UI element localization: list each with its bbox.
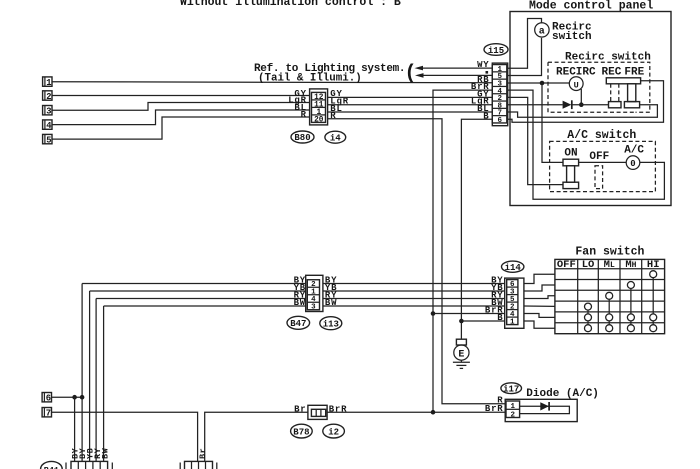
wire i14 pin2 to fan table row4 bbox=[524, 305, 555, 307]
diode connector cells 1 2 bbox=[506, 401, 520, 418]
oval i17 bbox=[501, 383, 522, 395]
wire i15 pin6 B down to ground bbox=[461, 119, 492, 339]
wire i15 pin3 to recirc motor bbox=[508, 82, 570, 84]
A/C ON contact bottom box bbox=[563, 182, 579, 188]
diode i17 outer box bbox=[505, 399, 577, 421]
wire A/C lamp to i15 pin4 BrR bbox=[508, 90, 665, 199]
ground E symbol bbox=[453, 339, 470, 368]
fan contact circles row B bbox=[585, 325, 657, 332]
svg-text:i13: i13 bbox=[323, 320, 339, 330]
svg-text:B78: B78 bbox=[293, 427, 309, 437]
wire box7 Br to bottom connector bbox=[52, 412, 198, 461]
wire i14 pin1 to fan table row6 bbox=[524, 321, 555, 328]
svg-text:B47: B47 bbox=[290, 319, 306, 329]
svg-text:1: 1 bbox=[510, 318, 515, 326]
svg-text:Br: Br bbox=[198, 448, 208, 459]
i15 pin numbers 1 5 3 4 2 8 7 6 bbox=[498, 66, 503, 125]
B80 right wire labels bbox=[330, 89, 349, 121]
svg-text:OFF: OFF bbox=[589, 151, 609, 163]
left terminal box 5 bbox=[43, 134, 52, 145]
node junction on RB row bbox=[540, 81, 545, 86]
svg-text:1: 1 bbox=[46, 78, 51, 88]
OFF position dashed contact bbox=[595, 166, 603, 189]
fan contact circles row RY (ML) bbox=[606, 292, 613, 299]
svg-text:Without illumination control :: Without illumination control : B bbox=[180, 0, 401, 9]
wire YB row turns down bbox=[89, 291, 91, 462]
wire ON bottom contact to i15 pin2 GY bbox=[508, 97, 563, 184]
B47 pin numbers 2 1 4 3 bbox=[311, 281, 316, 312]
connector B78/i2 body bbox=[308, 405, 327, 419]
svg-text:2: 2 bbox=[46, 92, 51, 102]
svg-text:7: 7 bbox=[46, 409, 51, 419]
left terminal box 3 bbox=[43, 106, 52, 117]
REC contact bottom box bbox=[609, 102, 622, 108]
svg-text:i4: i4 bbox=[330, 133, 341, 143]
oval i14 bbox=[502, 261, 524, 273]
wire Br from bottom connector to B78 bbox=[205, 412, 308, 461]
connector B80/i4 body bbox=[310, 89, 328, 125]
svg-text:6: 6 bbox=[498, 117, 503, 125]
svg-text:ML: ML bbox=[604, 259, 615, 271]
wire i14 pin5 to fan table row3 bbox=[524, 296, 555, 299]
svg-text:i2: i2 bbox=[328, 427, 339, 437]
svg-text:BrR: BrR bbox=[485, 404, 504, 414]
oval B41 (cut) bbox=[41, 461, 63, 469]
svg-text:Br: Br bbox=[294, 404, 306, 414]
arrow to lighting system (i15 pin5) bbox=[415, 73, 492, 78]
svg-text:3: 3 bbox=[311, 304, 316, 312]
wire ON contact to A/C lamp bbox=[579, 161, 627, 163]
wire i14 pin6 to fan table row1 bbox=[524, 274, 555, 283]
node junction BrR/B78 row bbox=[431, 410, 436, 415]
wire RY row turns down bbox=[95, 299, 97, 462]
connector i14 body bbox=[505, 278, 524, 328]
bottom left connector (cut) bbox=[66, 461, 112, 469]
arrow to lighting system (WY, i15 pin1) bbox=[415, 66, 493, 71]
FRE contact bottom box bbox=[624, 102, 639, 108]
node junction BrR row bbox=[431, 311, 436, 316]
Recirc switch dashed box bbox=[548, 62, 650, 112]
Mode control panel box bbox=[510, 12, 671, 206]
diode D1 (recirc) bbox=[563, 100, 572, 109]
REC contact dashed legs bbox=[610, 84, 612, 102]
FRE contact leg (engaged) bbox=[628, 84, 636, 102]
node junction box6 wire b bbox=[80, 395, 85, 400]
svg-text:i17: i17 bbox=[503, 385, 519, 395]
wire BW row turns down bbox=[103, 306, 105, 462]
fan switch contact column HI bbox=[652, 274, 654, 328]
fan switch contact column ML bbox=[608, 296, 610, 328]
svg-text:BW: BW bbox=[100, 447, 110, 459]
left terminal box 4 bbox=[43, 120, 53, 131]
bottom middle connector (cut) bbox=[180, 461, 217, 469]
wire box6 branch down to bottom connector bbox=[74, 397, 76, 461]
A/C ON contact leg bbox=[567, 166, 575, 182]
svg-text:A/C switch: A/C switch bbox=[567, 129, 636, 142]
i14 pin numbers 6 3 5 2 4 1 bbox=[510, 281, 515, 326]
svg-text:E: E bbox=[458, 349, 464, 360]
wire BrR row to i14 pin4 bbox=[433, 313, 505, 315]
fan contact circles row BrR bbox=[585, 314, 657, 321]
wire B80 R to diode i17 pin1 (down at x=442) bbox=[328, 119, 506, 404]
svg-text:R: R bbox=[301, 110, 307, 120]
wire B80 BL to i15 pin7 bbox=[328, 111, 493, 113]
motor lead down to diode row bbox=[580, 89, 582, 105]
wire box4 to B80 pin1 (BL) bbox=[52, 110, 310, 125]
connector B47/i13 body bbox=[306, 275, 323, 311]
svg-text:switch: switch bbox=[552, 31, 592, 43]
svg-text:0: 0 bbox=[630, 159, 635, 169]
asterisk mark for pin 5 bbox=[486, 71, 489, 74]
svg-text:OFF: OFF bbox=[557, 259, 576, 271]
i15 wire color labels WY * RB BrR GY LgR BL B bbox=[471, 60, 490, 121]
svg-text:A/C: A/C bbox=[624, 144, 644, 156]
svg-text:BW: BW bbox=[294, 298, 306, 308]
svg-text:(Tail & Illumi.): (Tail & Illumi.) bbox=[258, 73, 362, 85]
wire i14 pin4 to fan table row5 bbox=[524, 314, 555, 318]
wire box5 to B80 pin20 (R) bbox=[52, 117, 310, 139]
svg-text:U: U bbox=[574, 80, 579, 90]
svg-text:4: 4 bbox=[46, 121, 52, 131]
wire B80 LgR to i15 pin8 bbox=[328, 104, 493, 106]
oval i13 bbox=[320, 317, 342, 330]
fan contact circles row BW (LO) bbox=[585, 303, 592, 310]
svg-text:B80: B80 bbox=[294, 133, 310, 143]
svg-text:MH: MH bbox=[625, 259, 636, 271]
recirc switch slider bar bbox=[606, 78, 640, 84]
svg-text:i15: i15 bbox=[488, 46, 504, 56]
left terminal box 7 bbox=[42, 408, 51, 419]
wire B80 GY to i15 pin2 bbox=[328, 96, 493, 98]
left terminal box 1 bbox=[43, 77, 52, 88]
fan table header OFF LO ML MH HI bbox=[557, 259, 660, 271]
diode D2 (A/C) bbox=[540, 402, 549, 411]
oval i2 bbox=[323, 424, 345, 438]
svg-text:ON: ON bbox=[564, 148, 577, 160]
oval B80 bbox=[291, 131, 314, 143]
wire box6 to BY net bbox=[52, 396, 83, 398]
wire lamp to i15 pin5 bbox=[508, 38, 542, 76]
wire box3 to B80 pin11 (LgR) bbox=[52, 103, 310, 111]
svg-text:(: ( bbox=[405, 63, 417, 86]
B80 left wire labels bbox=[288, 89, 307, 120]
oval B47 bbox=[287, 316, 310, 329]
svg-text:a: a bbox=[539, 27, 545, 38]
wire fan row BY (B47 to i14) bbox=[82, 283, 505, 285]
B47 left wire labels bbox=[294, 276, 306, 309]
svg-text:HI: HI bbox=[647, 259, 660, 271]
connector i15 body bbox=[492, 63, 507, 126]
wire B row to i14 pin1 bbox=[461, 320, 504, 322]
svg-text:BW: BW bbox=[325, 298, 337, 308]
connector i15 oval bbox=[484, 44, 508, 56]
svg-text:i14: i14 bbox=[505, 263, 522, 273]
svg-text:FRE: FRE bbox=[624, 67, 644, 79]
wire fan row RY bbox=[96, 298, 505, 300]
wire junction down to A/C ON contact bbox=[542, 83, 563, 162]
node junction diode row bbox=[579, 102, 584, 107]
lamp L1 recirc switch illumination: loop wire from i15 pin1 bbox=[508, 19, 542, 69]
left terminal box 2 bbox=[43, 91, 52, 102]
wire i15 pin8 LgR to diode bbox=[508, 104, 563, 106]
svg-text:2: 2 bbox=[511, 411, 516, 419]
svg-text:Fan switch: Fan switch bbox=[575, 246, 644, 259]
diode internal loop wire bbox=[520, 406, 570, 413]
wire BY row turns down to bottom connector bbox=[81, 284, 83, 462]
fan contact circles row YB (MH) bbox=[627, 282, 634, 289]
fan switch contact column LO bbox=[587, 307, 589, 329]
svg-text:Diode (A/C): Diode (A/C) bbox=[526, 388, 599, 400]
svg-text:B41: B41 bbox=[44, 465, 59, 469]
left terminal box 6 bbox=[42, 393, 51, 404]
i14 wire labels BY YB RY BW BrR B bbox=[485, 275, 504, 323]
wire fan row YB bbox=[90, 290, 505, 292]
wire diode to REC contact bbox=[572, 104, 609, 106]
wire B78 BrR to diode i17 pin2 bbox=[327, 411, 505, 413]
svg-text:6: 6 bbox=[46, 394, 51, 404]
node junction box6 wire a bbox=[72, 395, 77, 400]
wire i14 pin3 to fan table row2 bbox=[524, 285, 555, 291]
lamp L1 circle bbox=[535, 23, 549, 37]
svg-text:1: 1 bbox=[511, 403, 516, 411]
fan contact circles row BY (HI) bbox=[650, 271, 657, 278]
recirc motor M1 bbox=[569, 77, 583, 91]
node junction B row bbox=[459, 319, 464, 324]
svg-text:20: 20 bbox=[314, 116, 324, 124]
wire i15 pin4 BrR down to B78 junction bbox=[433, 90, 492, 412]
svg-text:REC: REC bbox=[602, 67, 622, 79]
B80 pin numbers 12 11 1 20 bbox=[314, 94, 324, 125]
oval B78 bbox=[291, 424, 313, 438]
A/C lamp bbox=[626, 156, 640, 170]
wire slider bar to i15 pin6 B bbox=[508, 81, 664, 123]
svg-text:5: 5 bbox=[46, 136, 51, 146]
fan switch contact column MH bbox=[630, 285, 632, 328]
wire FRE contact to i15 pin7 BL bbox=[508, 105, 658, 117]
svg-text:3: 3 bbox=[46, 107, 51, 117]
fan switch table frame bbox=[555, 259, 665, 333]
svg-text:LO: LO bbox=[582, 259, 595, 271]
wire fan row BW bbox=[104, 305, 505, 307]
oval i4 bbox=[325, 131, 346, 143]
wire box1 to i15 pin3 (RB) bbox=[52, 82, 492, 83]
wire box2 to B80 pin12 (GY) bbox=[52, 95, 310, 97]
svg-text:Mode control panel: Mode control panel bbox=[529, 0, 653, 13]
A/C ON contact top box bbox=[563, 159, 579, 166]
A/C switch dashed box bbox=[550, 141, 656, 191]
B47 right wire labels bbox=[325, 276, 337, 309]
